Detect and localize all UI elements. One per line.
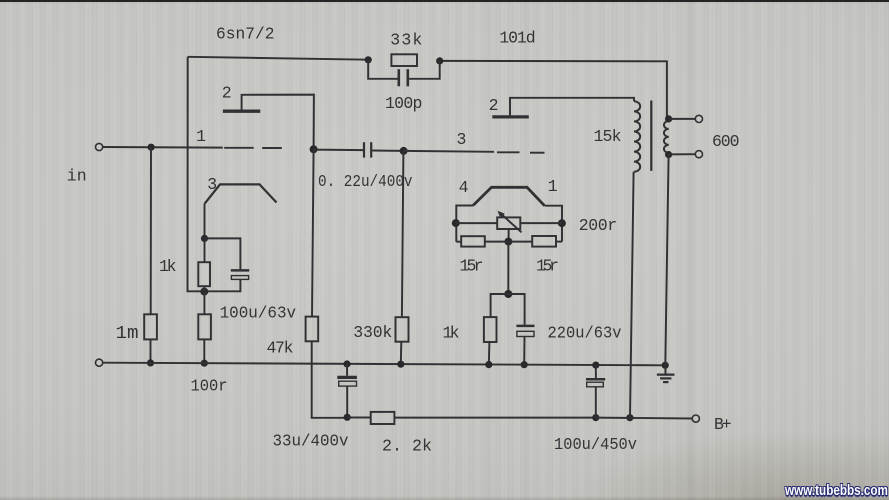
wire 15r left leads xyxy=(456,241,461,243)
svg-text:220u/63v: 220u/63v xyxy=(548,324,622,343)
wire grid V2 lead xyxy=(404,150,494,153)
transformer secondary winding xyxy=(664,121,669,153)
svg-text:1k: 1k xyxy=(159,257,177,276)
terminal 600 ohm top jack xyxy=(695,115,702,122)
ground symbol xyxy=(662,362,669,369)
wire 100r to ground rail xyxy=(203,339,205,363)
wire bias to 1k top xyxy=(491,294,509,317)
wire 1m top lead xyxy=(150,147,152,314)
tube V2 101d plate pin2 bar xyxy=(492,115,529,118)
wire 1m bottom lead xyxy=(150,339,152,363)
tube V1 6sn7 cathode pin3 xyxy=(205,184,277,203)
svg-text:100p: 100p xyxy=(385,94,422,113)
wire 100u/450v top lead xyxy=(595,365,597,378)
node cathode top of 1k xyxy=(201,235,208,242)
svg-text:in: in xyxy=(67,167,87,186)
wire top feedback rail xyxy=(188,57,369,60)
resistor 100r xyxy=(198,314,211,339)
wire junction down to 100r xyxy=(203,292,205,315)
transformer core xyxy=(650,101,652,171)
svg-text:330k: 330k xyxy=(353,323,392,342)
wire input to grid V1 xyxy=(103,146,223,149)
wire 100u bottom lead xyxy=(204,279,240,291)
svg-text:100u/450v: 100u/450v xyxy=(554,435,637,454)
node secondary top xyxy=(665,115,672,122)
wire B+ riser to primary xyxy=(630,172,634,418)
resistor 15r left xyxy=(461,236,485,246)
wire pot line left xyxy=(456,222,497,224)
resistor 1m xyxy=(144,314,157,339)
wire bias to 220u top xyxy=(508,294,524,325)
node 330k ground xyxy=(397,361,404,368)
svg-text:1m: 1m xyxy=(116,324,139,344)
tube V1 6sn7 grid pin1 dashes xyxy=(224,147,254,149)
wire filament right leg xyxy=(545,206,563,242)
wire 330k to ground rail xyxy=(400,342,403,365)
transformer primary winding 15k xyxy=(634,101,640,171)
svg-text:15k: 15k xyxy=(594,127,622,146)
node right of 33k xyxy=(436,57,443,64)
wire 33u bottom to B+ rail xyxy=(346,386,348,417)
resistor 1k bias xyxy=(484,317,497,342)
svg-text:100u/63v: 100u/63v xyxy=(220,304,297,323)
wire 330k top lead xyxy=(402,151,404,317)
svg-text:100r: 100r xyxy=(191,377,228,396)
node 1k bias ground xyxy=(485,361,492,368)
wire V2 plate to transformer primary xyxy=(510,98,634,116)
wire wiper node down to bias junction xyxy=(507,242,509,294)
capacitor 33u/400v xyxy=(337,376,357,379)
svg-text:1: 1 xyxy=(548,177,558,196)
wire 47k down across ground rail to B+ rail xyxy=(312,341,348,418)
wire coupling cap right lead to grid V2 xyxy=(372,150,403,152)
wire B+ rail left segment xyxy=(347,417,371,419)
wire B+ rail right segment xyxy=(596,417,692,420)
wire pot line right xyxy=(520,222,562,224)
node feedback tap left of 33k xyxy=(365,56,372,63)
terminal ground jack left xyxy=(96,359,103,366)
capacitor 100p xyxy=(397,69,400,86)
node cathode bottom junction xyxy=(200,288,208,296)
svg-text:15r: 15r xyxy=(536,257,559,276)
node grid V2 / 330k tap xyxy=(400,147,408,155)
wire 1k bias to ground rail xyxy=(488,342,491,365)
wire V1 plate lead xyxy=(242,95,314,150)
svg-text:2: 2 xyxy=(489,96,499,115)
wire 33u top lead xyxy=(346,364,348,376)
wire plate node down to 47k xyxy=(312,149,314,316)
svg-text:33k: 33k xyxy=(390,31,422,50)
svg-text:47k: 47k xyxy=(267,339,294,358)
svg-text:B+: B+ xyxy=(714,415,732,434)
wire 100p right leg xyxy=(409,61,440,79)
node hum pot right xyxy=(558,219,566,227)
node secondary bottom xyxy=(665,151,672,158)
node 100u/450v ground tap xyxy=(592,362,599,369)
tube V1 6sn7 plate pin2 bar xyxy=(223,109,260,112)
wire cathode to 100u top xyxy=(205,238,241,269)
svg-text:6sn7/2: 6sn7/2 xyxy=(216,24,275,43)
node 220u ground xyxy=(521,361,528,368)
wire secondary output bottom xyxy=(669,153,696,155)
resistor 15r right xyxy=(532,236,556,247)
wire secondary bottom to ground rail xyxy=(665,155,668,366)
svg-text:1: 1 xyxy=(196,127,206,146)
resistor 330k xyxy=(396,317,409,342)
node 33u ground tap xyxy=(343,360,350,367)
wire pot wiper down xyxy=(508,229,510,242)
wire top rail right of 33k to transformer secondary xyxy=(440,61,667,119)
potentiometer 200r xyxy=(497,217,520,229)
svg-text:2: 2 xyxy=(222,84,232,103)
tube V2 101d grid pin3 dashes xyxy=(497,151,520,153)
svg-text:3: 3 xyxy=(457,130,467,149)
wire 100p left leg xyxy=(368,60,398,79)
node 100u/450v B+ xyxy=(592,414,599,421)
wire 100u/450v bottom to B+ rail xyxy=(595,387,597,418)
wire 1k bottom to junction xyxy=(203,286,205,291)
wire 1k top lead xyxy=(204,238,206,262)
svg-text:3: 3 xyxy=(207,175,217,194)
wire 220u to ground rail xyxy=(523,337,525,365)
node 15r center junction xyxy=(504,238,512,246)
capacitor 100u/450v xyxy=(586,378,605,381)
svg-text:101d: 101d xyxy=(499,29,535,48)
node plate V1 coupling tap xyxy=(310,145,318,153)
wire left feedback drop to cathode xyxy=(188,57,205,291)
wire ground rail xyxy=(103,363,665,366)
node 1m ground xyxy=(147,359,154,366)
node hum pot left xyxy=(452,219,460,227)
svg-text:15r: 15r xyxy=(460,257,484,276)
tube V2 101d filament pins 4-1 xyxy=(473,187,545,205)
wire 15r right leads xyxy=(508,241,532,243)
svg-text:600: 600 xyxy=(712,132,740,151)
capacitor 0.22u/400v xyxy=(363,142,365,157)
terminal input jack xyxy=(96,143,103,150)
wire filament left leg xyxy=(456,206,473,242)
capacitor 220u/63v xyxy=(516,325,534,328)
svg-text:4: 4 xyxy=(459,178,469,197)
svg-text:200r: 200r xyxy=(579,216,617,235)
resistor 2.2k xyxy=(371,412,395,424)
resistor 33k xyxy=(391,54,417,66)
node 33u B+ xyxy=(344,414,351,421)
resistor 1k cathode V1 xyxy=(198,262,210,286)
wire secondary top stub xyxy=(667,119,669,121)
node input / 1m tap xyxy=(148,144,155,151)
terminal B+ jack xyxy=(692,415,699,422)
capacitor 100u/63v xyxy=(231,269,249,272)
wire V1 cathode lead xyxy=(204,204,206,239)
svg-text:0. 22u/400v: 0. 22u/400v xyxy=(318,172,413,191)
wire coupling cap left lead xyxy=(314,149,364,152)
svg-text:33u/400v: 33u/400v xyxy=(273,432,349,451)
svg-text:2. 2k: 2. 2k xyxy=(382,437,432,456)
wire B+ rail middle segment xyxy=(394,417,595,419)
node primary riser B+ xyxy=(626,414,633,421)
resistor 47k xyxy=(306,317,319,342)
node 100r ground xyxy=(201,360,208,367)
terminal 600 ohm bottom jack xyxy=(695,151,702,158)
wire secondary output top xyxy=(669,118,696,120)
svg-text:1k: 1k xyxy=(443,324,460,343)
potentiometer 200r wiper arrow xyxy=(501,214,522,233)
node bias junction xyxy=(504,290,512,298)
